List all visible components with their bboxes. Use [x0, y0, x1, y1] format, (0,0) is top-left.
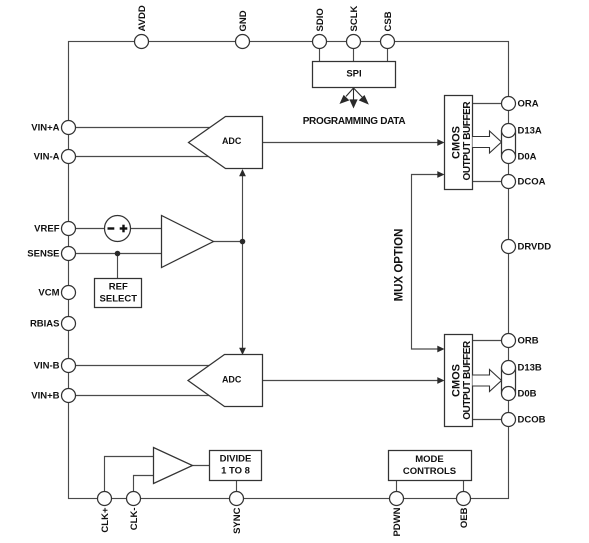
svg-text:SDIO: SDIO	[315, 8, 326, 31]
pin VCM	[38, 286, 75, 300]
wire ref amp output	[214, 241, 243, 243]
pin AVDD	[135, 5, 149, 48]
pin D0B	[502, 387, 537, 401]
svg-text:GND: GND	[238, 10, 249, 31]
svg-text:VIN-A: VIN-A	[34, 152, 60, 163]
wire VIN-B to ADC B	[76, 365, 210, 367]
node junction on ref output wire	[240, 239, 246, 245]
svg-text:CONTROLS: CONTROLS	[403, 466, 456, 477]
wire SDIO to SPI	[319, 49, 321, 62]
pin D0A	[502, 150, 537, 164]
pin SCLK	[347, 6, 361, 49]
pin SDIO	[313, 8, 327, 48]
svg-text:ORB: ORB	[518, 336, 539, 347]
ADC U1 channel A	[189, 117, 263, 169]
svg-text:OUTPUT BUFFER: OUTPUT BUFFER	[462, 340, 473, 420]
pin VREF	[34, 222, 75, 236]
pin OEB	[457, 492, 471, 529]
bus pill D13B to D0B	[502, 368, 515, 393]
wire buffer A to DCOA	[473, 181, 502, 183]
svg-text:VIN+A: VIN+A	[31, 123, 59, 134]
CMOS output buffer A	[445, 96, 473, 190]
svg-text:CLK+: CLK+	[100, 507, 111, 533]
pin VIN+B	[31, 389, 75, 403]
pin VIN-B	[34, 359, 76, 373]
chip border	[69, 42, 509, 499]
pin GND	[236, 10, 250, 48]
svg-text:VCM: VCM	[38, 288, 59, 299]
pin CSB	[381, 11, 395, 48]
wire junction to REF SELECT	[117, 254, 119, 279]
svg-text:MUX OPTION: MUX OPTION	[394, 229, 406, 302]
svg-text:DCOB: DCOB	[518, 415, 546, 426]
pin D13B	[502, 361, 542, 375]
block arrow buffer A to D13A/D0A	[473, 131, 502, 153]
pin CLK-	[127, 492, 141, 531]
wire buffer B to ORB	[473, 340, 502, 342]
node junction on SENSE wire	[115, 251, 121, 257]
wire CLK+ to clock amp	[105, 457, 154, 492]
svg-text:SYNC: SYNC	[232, 507, 243, 534]
svg-text:SPI: SPI	[346, 69, 361, 80]
pin PDWN	[390, 492, 404, 537]
wire ADC B to buffer B	[263, 380, 438, 382]
wire VIN+A to ADC A	[76, 127, 212, 129]
svg-text:MODE: MODE	[415, 454, 444, 465]
svg-text:PDWN: PDWN	[392, 507, 403, 536]
svg-text:ADC: ADC	[222, 374, 242, 384]
wire SENSE to ref amp	[76, 253, 163, 255]
arrowhead into ADC A	[239, 169, 246, 176]
svg-text:ORA: ORA	[518, 99, 539, 110]
wire ADC A to buffer A	[263, 142, 438, 144]
wire MUX OPTION bracket	[412, 175, 438, 350]
wire VIN+B to ADC B	[76, 395, 211, 397]
svg-text:SCLK: SCLK	[349, 6, 360, 32]
reference source V1	[105, 216, 131, 242]
svg-text:CMOS: CMOS	[451, 364, 463, 397]
arrowhead into ADC B	[239, 348, 246, 355]
arrowhead ADC B wire into buffer B	[437, 377, 444, 384]
svg-text:CSB: CSB	[383, 11, 394, 31]
svg-text:SELECT: SELECT	[100, 294, 138, 305]
clock amp A1	[154, 448, 193, 484]
block arrow buffer B to D13B/D0B	[473, 370, 502, 392]
wire clock amp to divider	[193, 465, 210, 467]
pin SENSE	[27, 247, 75, 261]
wire vertical ref bus	[242, 176, 244, 242]
svg-text:CLK-: CLK-	[129, 508, 140, 531]
svg-text:OUTPUT BUFFER: OUTPUT BUFFER	[462, 101, 473, 181]
pin VIN-A	[34, 150, 76, 164]
pin SYNC	[230, 492, 244, 534]
wire buffer B to DCOB	[473, 419, 502, 421]
MODE CONTROLS box	[389, 451, 472, 481]
svg-text:D13B: D13B	[518, 363, 542, 374]
arrowhead ADC A wire into buffer A	[437, 139, 444, 146]
wire VREF to ref source	[76, 228, 106, 230]
svg-text:SENSE: SENSE	[27, 249, 59, 260]
svg-text:VREF: VREF	[34, 224, 60, 235]
svg-text:CMOS: CMOS	[451, 126, 463, 159]
pin DCOB	[502, 413, 546, 427]
pin RBIAS	[30, 317, 76, 331]
wire SPI programming-data fan arrows	[341, 88, 368, 107]
pin DCOA	[502, 175, 546, 189]
pin ORA	[502, 97, 539, 111]
wire CSB to SPI	[387, 49, 389, 62]
svg-text:DRVDD: DRVDD	[518, 242, 552, 253]
bus pill D13A to D0A	[502, 131, 515, 156]
svg-text:D13A: D13A	[518, 126, 542, 137]
svg-text:REF: REF	[109, 282, 128, 293]
svg-text:ADC: ADC	[222, 136, 242, 146]
pin VIN+A	[31, 121, 75, 135]
svg-text:DIVIDE: DIVIDE	[220, 454, 252, 465]
svg-text:AVDD: AVDD	[137, 5, 148, 31]
REF SELECT box	[95, 279, 142, 308]
wire SCLK to SPI	[353, 49, 355, 62]
ADC U2 channel B	[188, 355, 263, 407]
pin ORB	[502, 334, 539, 348]
svg-text:DCOA: DCOA	[518, 177, 546, 188]
DIVIDE 1 TO 8 box	[210, 451, 262, 481]
svg-text:VIN+B: VIN+B	[31, 391, 59, 402]
wire buffer A to ORA	[473, 103, 502, 105]
svg-text:D0A: D0A	[518, 152, 537, 163]
svg-text:D0B: D0B	[518, 389, 537, 400]
arrowhead mux wire into buffer B	[437, 346, 444, 353]
arrowhead mux wire into buffer A	[437, 171, 444, 178]
svg-text:OEB: OEB	[459, 507, 470, 528]
wire VIN-A to ADC A	[76, 156, 210, 158]
svg-text:1 TO 8: 1 TO 8	[221, 466, 250, 477]
op-amp reference amp	[162, 216, 214, 268]
wire PDWN to mode controls	[396, 481, 398, 492]
svg-text:VIN-B: VIN-B	[34, 361, 60, 372]
svg-text:RBIAS: RBIAS	[30, 319, 60, 330]
wire SYNC to divider	[236, 481, 238, 492]
pin DRVDD	[502, 240, 552, 254]
SPI box	[313, 62, 396, 88]
pin CLK+	[98, 492, 112, 533]
pin D13A	[502, 124, 542, 138]
wire ref source to ref amp	[131, 228, 163, 230]
CMOS output buffer B	[445, 335, 473, 427]
svg-text:PROGRAMMING DATA: PROGRAMMING DATA	[303, 116, 406, 127]
wire OEB to mode controls	[463, 481, 465, 492]
wire CLK- to clock amp	[134, 476, 154, 492]
